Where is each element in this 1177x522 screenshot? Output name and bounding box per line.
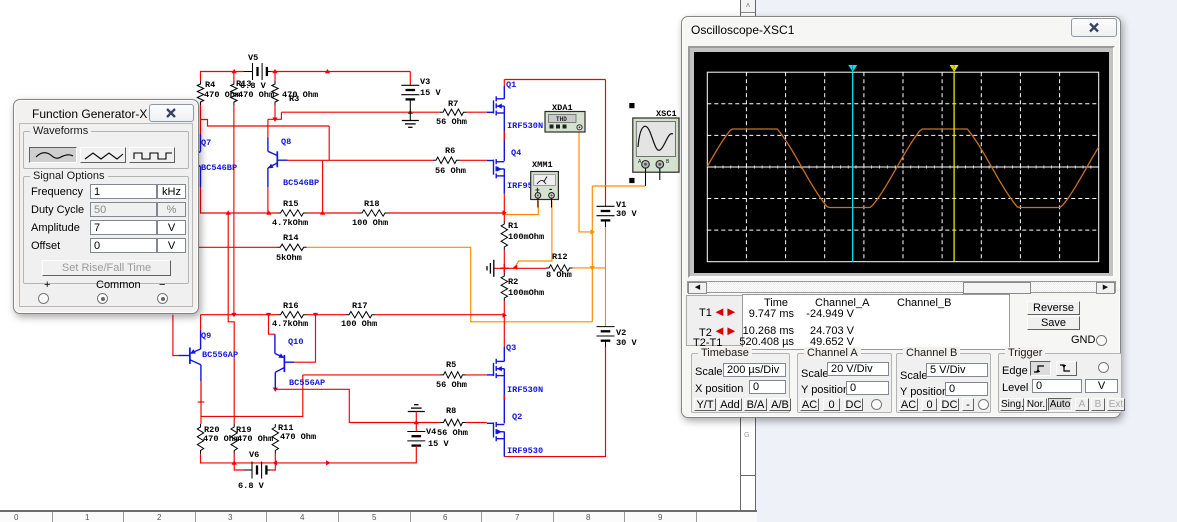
node junction Q10 emitter on R16 row (266, 313, 271, 317)
resistor R3 470 Ohm (272, 81, 278, 105)
svg-text:THD: THD (556, 116, 567, 123)
wire V3 negative to ground (409, 99, 411, 120)
node junction V4 column on R8 row (414, 420, 419, 424)
svg-text:100 Ohm: 100 Ohm (352, 218, 388, 228)
svg-text:100mOhm: 100mOhm (508, 288, 544, 298)
oscilloscope graticule grid (707, 72, 1098, 262)
resistor R5 56 Ohm (441, 372, 466, 378)
svg-text:R8: R8 (446, 406, 456, 416)
resistor R2 100mOhm (501, 273, 507, 301)
battery V5 6.8 V (252, 63, 254, 80)
wire Q7 emitter corner to R15 row (200, 187, 202, 214)
svg-text:Q2: Q2 (512, 412, 522, 422)
resistor R14 5kOhm (277, 244, 307, 250)
node junction orange output (590, 266, 595, 270)
node junction Q10 collector (273, 388, 278, 392)
ground below V3 (402, 120, 419, 122)
wire R5 row branch down to Q9 collector row (200, 375, 302, 417)
wire R14 row from function generator (196, 246, 277, 248)
wire orange oscilloscope channel A (592, 185, 645, 187)
resistor R19 470 Ohm (231, 424, 237, 454)
selection handle top of XSC1 (629, 103, 634, 108)
transistor Q1 IRF530N (503, 80, 505, 87)
svg-text:470 Ohm: 470 Ohm (204, 90, 240, 100)
wire orange output vertical (591, 186, 593, 322)
transistor Q4 IRF9530 (495, 159, 497, 164)
svg-text:Q10: Q10 (288, 337, 303, 347)
svg-text:XMM1: XMM1 (532, 160, 553, 170)
svg-text:Q4: Q4 (511, 148, 521, 158)
wire ladder vertical from R15 row down to R19 (228, 213, 234, 424)
svg-text:R15: R15 (283, 199, 298, 209)
svg-text:R6: R6 (445, 146, 455, 156)
schematic canvas (0, 0, 740, 510)
wire R20 bottom lead (200, 454, 202, 464)
wire rail stub to R13 (233, 72, 235, 82)
battery V6 6.8 V (251, 462, 253, 479)
wire V3 positive lead (409, 72, 411, 86)
svg-text:56 Ohm: 56 Ohm (436, 380, 467, 390)
ground above V4 (408, 411, 425, 413)
node junction R17 row end at Q3 drain (503, 313, 507, 318)
transistor Q2 IRF9530 (495, 422, 497, 427)
transistor Q7 BC546BP (200, 134, 202, 152)
readout table (742, 294, 1010, 350)
resistor R4 470 Ohm (197, 81, 203, 105)
wire Q4 source lead down to R15 row junction (503, 169, 505, 194)
wire Q2 source lead down (503, 432, 505, 457)
svg-text:R17: R17 (352, 301, 367, 311)
resistor R1 100mOhm (501, 221, 507, 250)
svg-text:R14: R14 (283, 233, 298, 243)
node junction on top rail at R3 (272, 69, 277, 73)
resistor R15 4.7kOhm (278, 210, 307, 216)
resistor R13 470 Ohm (231, 81, 237, 105)
svg-text:470 Ohm: 470 Ohm (238, 90, 274, 100)
Channel B group (896, 353, 991, 413)
screen scrollbar (687, 281, 1116, 293)
ground at R1 R2 node (493, 260, 495, 277)
Trigger group (998, 353, 1122, 413)
svg-text:BC556AP: BC556AP (289, 378, 325, 388)
svg-text:Q8: Q8 (281, 137, 291, 147)
screen bezel (688, 46, 1115, 278)
node junction R13 column end on R16 row (231, 313, 236, 317)
wire orange V1 negative through output node to V2 positive (605, 227, 607, 327)
svg-text:R13: R13 (236, 79, 251, 89)
svg-text:BC546BP: BC546BP (283, 178, 319, 188)
wire V1 negative lead (605, 220, 607, 227)
node junction V6 right on bottom rail (273, 460, 277, 465)
wire R6 to Q4 gate (460, 159, 487, 161)
wire R17 junction down to Q3 drain (503, 315, 505, 347)
svg-text:R12: R12 (552, 252, 567, 262)
wire V2 negative lead (605, 341, 607, 347)
wire R4 bottom to Q7 collector (200, 105, 202, 134)
node junction on top rail at R13 (232, 69, 237, 73)
resistor R12 8 Ohm (546, 265, 573, 271)
transistor Q8 BC546BP (267, 138, 269, 152)
node junction on bottom rail (326, 460, 330, 465)
resistor R20 470 Ohm (197, 424, 203, 454)
node junction V3 negative on R7 row (408, 110, 413, 114)
wire output node to R2 (503, 268, 505, 273)
wire oscilloscope A terminal lead (645, 168, 647, 186)
wire V6 right lead up to rail (270, 463, 275, 470)
wire Q9 emitter corner from R16 row (200, 315, 202, 330)
svg-text:R1: R1 (508, 221, 518, 231)
Reverse button (1027, 301, 1080, 315)
svg-text:V6: V6 (249, 450, 259, 460)
svg-text:R2: R2 (508, 277, 518, 287)
wire Q10 emitter to R16 row (269, 315, 275, 335)
wire orange XMM1 minus to R12 left node (515, 201, 552, 267)
GND radio (1071, 334, 1095, 346)
node junction orange XDA1 join (591, 229, 595, 234)
svg-text:IRF530N: IRF530N (507, 121, 543, 131)
svg-text:V5: V5 (248, 53, 258, 63)
svg-text:BC556AP: BC556AP (202, 350, 238, 360)
wire R16 row (201, 314, 278, 316)
bottom ruler (0, 510, 757, 522)
svg-text:Q7: Q7 (201, 138, 211, 148)
svg-text:R4: R4 (205, 80, 215, 90)
wire Q3 source to Q2 (503, 369, 505, 424)
svg-text:56 Ohm: 56 Ohm (437, 428, 468, 438)
battery V4 15 V (407, 431, 425, 433)
battery V3 15 V (401, 84, 419, 86)
Function Generator dialog window (13, 99, 199, 314)
svg-text:V2: V2 (616, 328, 626, 338)
resistor R16 4.7kOhm (278, 312, 307, 318)
wire orange XMM1 plus to R15 row end (505, 201, 538, 215)
Signal Options group (23, 176, 189, 284)
svg-text:Q9: Q9 (201, 331, 211, 341)
selection handle bottom of XSC1 (629, 178, 634, 183)
cursor T2 yellow (953, 72, 955, 262)
svg-text:R16: R16 (283, 301, 298, 311)
node junction R3 on jog wire (272, 118, 277, 122)
svg-text:BC546BP: BC546BP (201, 163, 237, 173)
Waveforms group (23, 131, 189, 169)
wire R11 bottom lead (274, 454, 276, 464)
svg-text:4.7kOhm: 4.7kOhm (272, 218, 308, 228)
wire Q10 base branch to R16 row (294, 315, 316, 363)
resistor R11 470 Ohm (272, 424, 278, 454)
node junction XMM1 minus on R12 row (513, 265, 517, 270)
svg-text:100mOhm: 100mOhm (508, 232, 544, 242)
svg-text:30 V: 30 V (616, 209, 637, 219)
transistor Q9 BC556AP (200, 330, 202, 349)
resistor R6 56 Ohm (433, 157, 460, 163)
resistor R7 56 Ohm (440, 109, 467, 115)
svg-text:R7: R7 (448, 99, 458, 109)
node junction Q8 base branch on R15 row (320, 210, 325, 214)
transistor Q3 IRF530N (503, 347, 505, 361)
svg-text:56 Ohm: 56 Ohm (436, 117, 467, 127)
wire jog connecting Q8 collector to R7 row (268, 112, 282, 119)
wire orange R12 to V1 V2 midpoint (573, 267, 606, 269)
svg-text:Q1: Q1 (506, 80, 516, 90)
wire rail corner to R4 (200, 71, 202, 81)
node junction R1 R2 ground cross (500, 267, 509, 269)
Timebase group (691, 353, 790, 413)
svg-text:56 Ohm: 56 Ohm (435, 166, 466, 176)
wire R1 bottom to output node (503, 250, 505, 268)
wire function generator output to Q9 base (173, 315, 178, 356)
wire corner to R6 row (329, 126, 433, 160)
svg-text:100 Ohm: 100 Ohm (341, 319, 377, 329)
svg-text:470 Ohm: 470 Ohm (237, 434, 273, 444)
node junction Q8 emitter on R15 row (266, 210, 271, 214)
svg-text:6.8 V: 6.8 V (238, 481, 265, 491)
svg-text:R3: R3 (289, 94, 299, 104)
svg-text:IRF9530: IRF9530 (507, 446, 543, 456)
wire R5 row (303, 374, 441, 376)
svg-text:470 Ohm: 470 Ohm (280, 432, 316, 442)
wire Q1 source to Q4 (503, 106, 505, 131)
wire oscilloscope B terminal lead (659, 168, 661, 180)
wire orange R14 to output node (307, 247, 593, 321)
svg-text:15 V: 15 V (420, 88, 441, 98)
wire V1 positive rail from Q1 drain (504, 79, 605, 81)
resistor R8 56 Ohm (441, 419, 466, 425)
wire Q4 source node to R1 (503, 213, 505, 221)
svg-text:IRF530N: IRF530N (507, 385, 543, 395)
wire rail stub to R3 (274, 72, 276, 82)
svg-text:470 Ohm: 470 Ohm (282, 90, 318, 100)
wire R7 row to Q1 gate (281, 111, 440, 113)
wire V2 negative to Q2 source (504, 347, 605, 457)
app vertical scrollbar (740, 0, 756, 522)
node junction R19 V6 on bottom rail (232, 460, 237, 464)
svg-text:V3: V3 (420, 77, 430, 87)
waveform trace channel A (707, 129, 1098, 208)
Oscilloscope-XSC1 window (681, 16, 1121, 418)
wire Q9 collector column to R20 (200, 381, 202, 424)
battery V1 30 V (597, 205, 615, 207)
wire XMM1 terminal leads (537, 198, 539, 207)
svg-text:5kOhm: 5kOhm (276, 253, 302, 263)
wire V4 negative to bottom rail (400, 446, 416, 463)
wire orange XDA1 output lead (579, 132, 592, 232)
svg-text:4.7kOhm: 4.7kOhm (272, 319, 308, 329)
svg-text:15 V: 15 V (428, 439, 449, 449)
node junction on Q9 collector column (198, 401, 205, 403)
wire branch from R4 column to Q8-base net (201, 120, 330, 127)
svg-text:2: 2 (952, 66, 955, 72)
wire R13 column down to R16 row (233, 105, 235, 315)
wire R8 to Q2 gate (466, 422, 487, 424)
node marker between Q3 and Q2 (503, 395, 505, 400)
svg-text:V4: V4 (426, 427, 436, 437)
wire R15 row (201, 212, 278, 214)
wire R19 bottom lead to V6 (234, 454, 243, 471)
wire Q8 base to R15 row branch (288, 159, 330, 161)
node junction Q10 base branch on R16 row (313, 313, 318, 317)
node junction on top rail right of V5 (325, 69, 330, 73)
node junction R15 row end at Q4 source (503, 210, 507, 215)
wire bottom rail (201, 462, 416, 464)
Save button (1027, 316, 1080, 330)
svg-text:8 Ohm: 8 Ohm (546, 270, 572, 280)
resistor R18 100 Ohm (359, 210, 388, 216)
resistor R17 100 Ohm (346, 312, 375, 318)
svg-text:R5: R5 (446, 360, 456, 370)
Channel A group (797, 353, 892, 413)
svg-text:1: 1 (851, 66, 854, 72)
cursor readout side panel (686, 295, 743, 346)
wire ground stem to V4 (415, 412, 417, 432)
transistor Q10 BC556AP (274, 334, 276, 353)
battery V2 30 V (597, 326, 615, 328)
wire top rail from R4 to V3 (201, 71, 244, 73)
node junction R15 row to lower ladder (226, 210, 231, 214)
wire Q10 collector row to R8 (275, 389, 440, 422)
wire R2 bottom to R17 row junction (503, 301, 505, 315)
wire Q8 collector column (267, 119, 269, 137)
wire R12 row red from ground node (494, 267, 546, 269)
cursor T1 cyan (852, 72, 854, 262)
svg-text:30 V: 30 V (616, 338, 637, 348)
svg-text:R18: R18 (364, 199, 379, 209)
svg-text:Q3: Q3 (506, 343, 516, 353)
wire R3 bottom stub (274, 105, 276, 119)
